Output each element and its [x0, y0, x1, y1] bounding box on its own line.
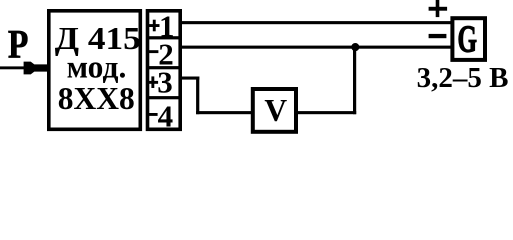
minus sign: [429, 34, 447, 38]
wire pin2 to source minus: [180, 46, 452, 49]
wire pin3 stub: [180, 77, 199, 80]
plus sign: [429, 0, 448, 17]
pin +3: [148, 64, 173, 99]
junction node on minus wire: [351, 43, 359, 51]
pin -2: [149, 36, 174, 71]
svg-text:3: 3: [157, 64, 173, 99]
diode block D415 outline: [49, 11, 141, 130]
input arrow: [24, 62, 49, 75]
wire pin1 to source plus: [180, 21, 452, 24]
svg-text:G: G: [457, 18, 477, 60]
pin divider 2: [146, 66, 181, 69]
voltmeter V outline: [253, 89, 296, 132]
pin column outline: [148, 11, 181, 130]
wire to voltmeter left: [196, 111, 253, 114]
svg-text:3,2–5 В: 3,2–5 В: [417, 62, 509, 94]
svg-text:Р: Р: [8, 21, 29, 66]
pin +1: [149, 8, 175, 43]
svg-text:8ХХ8: 8ХХ8: [58, 81, 135, 116]
wire up to junction: [353, 46, 356, 115]
pin -4: [148, 98, 173, 133]
svg-text:мод.: мод.: [67, 50, 127, 85]
svg-text:4: 4: [158, 98, 174, 133]
wire input lead: [0, 66, 27, 69]
source G outline: [452, 18, 485, 60]
pin divider 1: [146, 36, 181, 39]
wire voltmeter right: [297, 111, 356, 114]
wire pin3 vertical drop: [196, 77, 199, 115]
svg-text:V: V: [264, 93, 287, 128]
pin divider 3: [146, 96, 181, 99]
